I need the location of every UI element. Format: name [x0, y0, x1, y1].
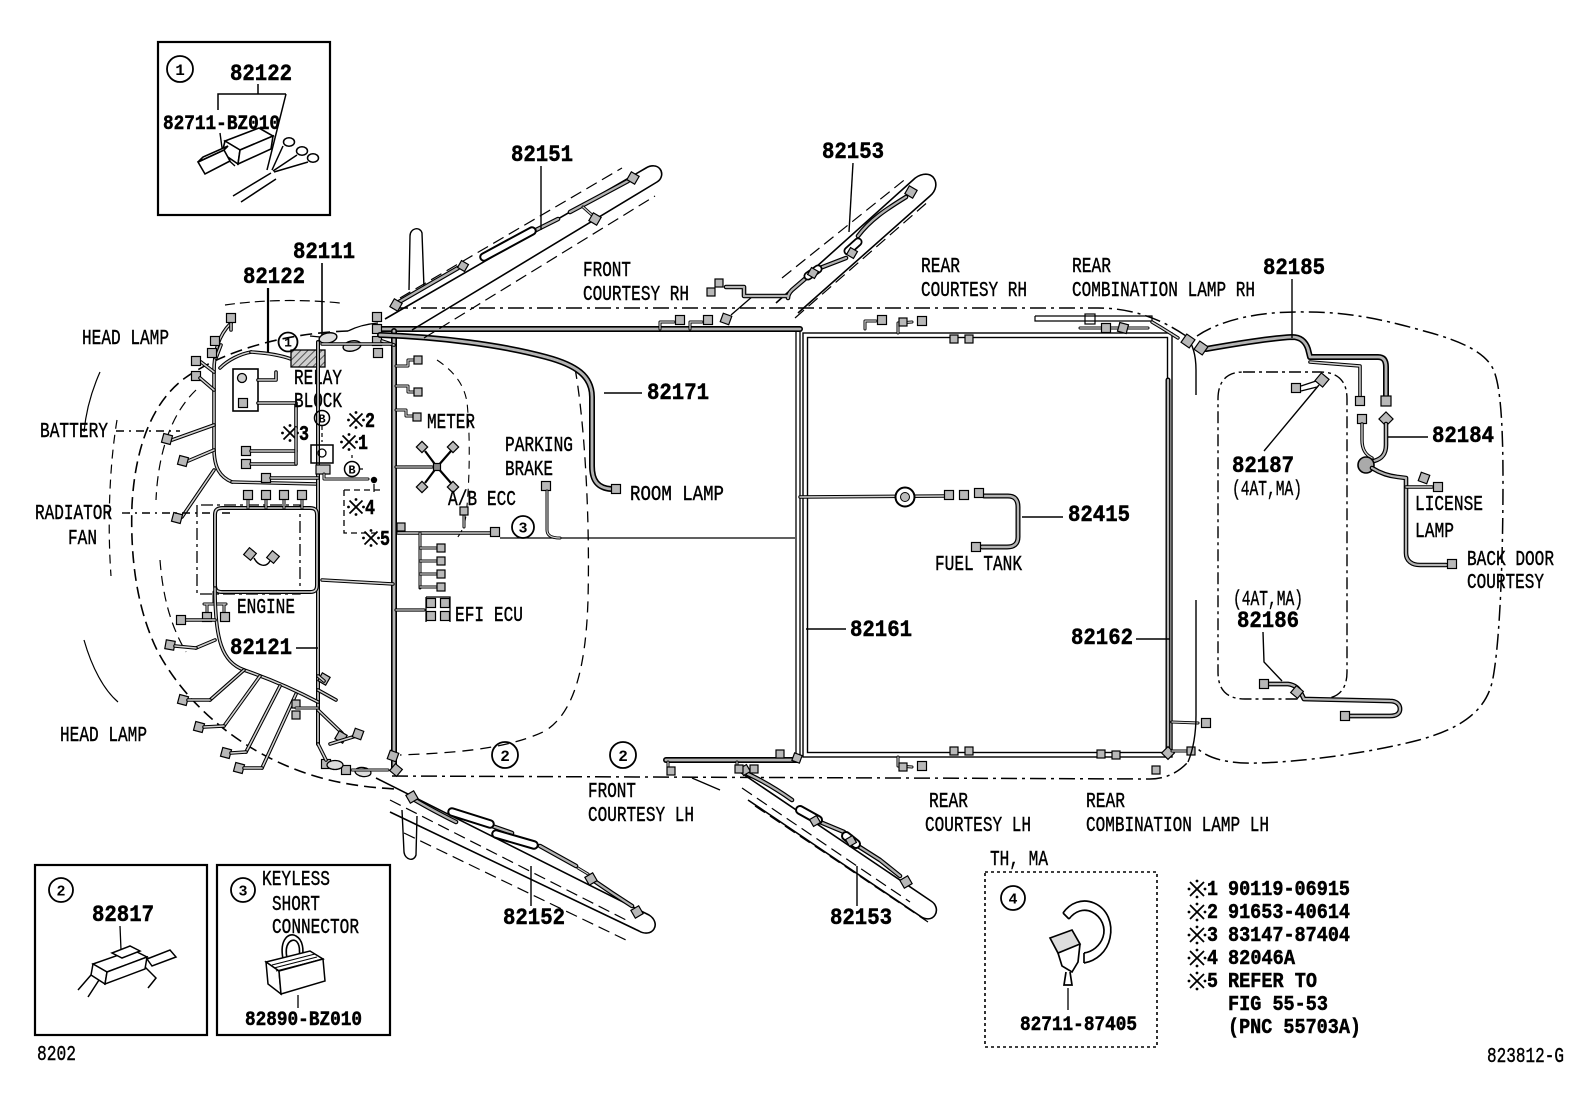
svg-text:B: B	[318, 412, 325, 426]
front courtesy LH connectors	[667, 762, 670, 768]
dashed box *5	[344, 490, 383, 533]
svg-text:8202: 8202	[37, 1044, 76, 1067]
svg-text:TH, MA: TH, MA	[990, 849, 1048, 872]
note 1	[1188, 880, 1207, 899]
fusebox column connectors	[242, 447, 251, 456]
fuel filler circle	[896, 488, 915, 507]
svg-text:COURTESY: COURTESY	[1467, 572, 1544, 595]
cabin dashed console curve	[400, 368, 588, 755]
wire trunk to engine loop	[232, 482, 318, 484]
svg-text:COMBINATION LAMP RH: COMBINATION LAMP RH	[1072, 280, 1255, 303]
svg-text:2: 2	[56, 883, 65, 900]
engine bay trunk harness	[214, 323, 232, 482]
svg-text:82890-BZ010: 82890-BZ010	[245, 1009, 362, 1032]
cabin divider line	[500, 537, 795, 539]
svg-text:82185: 82185	[1263, 255, 1325, 281]
connector stack engine bay	[292, 700, 300, 708]
harness 82162 vertical band	[1166, 380, 1171, 750]
svg-text:82122: 82122	[230, 61, 292, 87]
note 5	[1188, 972, 1207, 991]
parking brake wire	[542, 482, 551, 491]
svg-text:82153: 82153	[830, 905, 892, 931]
EFI ECU connector block	[396, 608, 424, 611]
A/B ECC post	[463, 516, 466, 527]
leader 82122 vertical	[267, 288, 269, 352]
part number 82415 + leader	[1022, 516, 1063, 518]
harness 82151	[399, 181, 628, 302]
harness 82185	[1206, 337, 1386, 396]
bumper inner arc	[109, 420, 117, 576]
svg-text:REAR: REAR	[1086, 791, 1125, 814]
rear door RH outline	[776, 174, 936, 313]
svg-text:1: 1	[358, 433, 368, 456]
note 2	[1188, 903, 1207, 922]
svg-text:82162: 82162	[1071, 625, 1133, 651]
svg-text:PARKING: PARKING	[505, 435, 573, 458]
front door LH outline	[376, 778, 655, 933]
svg-text:83147-87404: 83147-87404	[1228, 925, 1350, 948]
svg-text:BRAKE: BRAKE	[505, 459, 553, 482]
engine bay bottom connectors	[318, 690, 336, 700]
harness 82186	[1268, 684, 1400, 716]
legend box 4	[985, 872, 1157, 1047]
harness 82153 bottom	[748, 774, 900, 876]
svg-text:82186: 82186	[1237, 608, 1299, 634]
svg-text:A/B ECC: A/B ECC	[448, 489, 516, 512]
meter hook connector 3	[396, 410, 413, 416]
legend box 3	[217, 865, 390, 1035]
svg-text:823812-G: 823812-G	[1487, 1046, 1564, 1069]
svg-text:82046A: 82046A	[1228, 948, 1295, 971]
main body rear edge curves	[1186, 336, 1196, 395]
82122 bracket leader	[218, 84, 286, 170]
svg-text:KEYLESS: KEYLESS	[262, 869, 330, 892]
connector drawing 82890	[282, 935, 303, 959]
meter cross component	[396, 465, 432, 468]
svg-text:4: 4	[1008, 891, 1017, 908]
lower engine bay harness	[215, 588, 318, 702]
note 3	[1188, 926, 1207, 945]
harness 82171 (roof to room lamp)	[380, 335, 611, 489]
floor rect bottom connectors	[950, 747, 958, 755]
battery branch wires	[172, 425, 214, 440]
svg-text:ROOM LAMP: ROOM LAMP	[630, 484, 724, 507]
svg-text:REAR: REAR	[921, 256, 960, 279]
rear floor harness rectangle 82161/82162	[803, 333, 1172, 757]
svg-text:4: 4	[365, 498, 375, 521]
svg-text:COURTESY RH: COURTESY RH	[583, 284, 689, 307]
A/B ECC band	[398, 531, 490, 535]
svg-text:HEAD LAMP: HEAD LAMP	[82, 328, 169, 351]
main roof rail harness (82141 run along top)	[378, 326, 800, 332]
82186 leader	[1263, 632, 1282, 681]
svg-text:82121: 82121	[230, 635, 292, 661]
engine harness loop	[215, 508, 317, 592]
82187 connector + leader	[1292, 384, 1301, 393]
engine harness 82121 central vertical	[316, 342, 320, 744]
svg-text:82122: 82122	[243, 264, 305, 290]
82185 connectors at lamp	[1181, 334, 1195, 348]
svg-text:ENGINE: ENGINE	[237, 597, 295, 620]
front door RH outline	[385, 166, 662, 330]
noise filter components	[315, 411, 330, 426]
back door window opening	[1218, 372, 1347, 699]
svg-text:FRONT: FRONT	[583, 260, 631, 283]
roof line top (dash-dot)	[392, 308, 1186, 336]
circled 4 (legend)	[1001, 886, 1025, 910]
T-fork connector	[204, 592, 226, 612]
svg-text:COURTESY RH: COURTESY RH	[921, 280, 1027, 303]
svg-text:COURTESY LH: COURTESY LH	[925, 815, 1031, 838]
circled 3	[512, 516, 534, 538]
floor rect top connectors	[950, 335, 958, 343]
loop stem connectors	[247, 500, 250, 508]
svg-text:METER: METER	[427, 412, 475, 435]
svg-text:82711-87405: 82711-87405	[1020, 1014, 1137, 1037]
windshield cowl lines	[348, 323, 378, 331]
connector comb	[419, 533, 422, 588]
engine dash-dot box	[197, 505, 300, 594]
harness 82152	[415, 800, 632, 906]
svg-text:2: 2	[500, 748, 510, 766]
quarter vent front door RH	[409, 229, 424, 290]
svg-text:5: 5	[1207, 971, 1218, 994]
car body front outline	[132, 331, 396, 789]
svg-text:2: 2	[365, 411, 375, 434]
room lamp connector	[612, 485, 621, 494]
front floor right edge double line	[796, 331, 800, 758]
fuel tank line	[800, 496, 944, 497]
svg-text:82161: 82161	[850, 617, 912, 643]
part number 82171 + leader	[604, 392, 642, 394]
leader 82111 vertical	[321, 263, 323, 336]
svg-text:4: 4	[1207, 948, 1218, 971]
svg-text:COMBINATION LAMP LH: COMBINATION LAMP LH	[1086, 815, 1269, 838]
svg-text:COURTESY LH: COURTESY LH	[588, 805, 694, 828]
svg-text:82415: 82415	[1068, 502, 1130, 528]
svg-text:HEAD LAMP: HEAD LAMP	[60, 725, 147, 748]
radiator fan branch	[182, 470, 214, 517]
svg-text:3: 3	[1207, 925, 1218, 948]
82151 hook	[583, 207, 592, 215]
bottom floor rail harness	[666, 757, 798, 763]
quarter vent front door LH	[402, 810, 417, 859]
part number 82161 + leader	[806, 628, 846, 630]
head lamp RH branch wires	[201, 362, 214, 372]
svg-text:FUEL TANK: FUEL TANK	[935, 554, 1022, 577]
circled 1 (diagram)	[279, 333, 298, 352]
svg-text:RADIATOR: RADIATOR	[35, 503, 112, 526]
connector drawing 82817	[78, 946, 176, 997]
legend box 1	[158, 42, 330, 215]
svg-text:(4AT,MA): (4AT,MA)	[1232, 479, 1302, 502]
svg-text:B: B	[348, 463, 355, 477]
harness 82141 vertical run	[391, 331, 397, 768]
svg-text:82153: 82153	[822, 139, 884, 165]
circled 2 markers	[492, 742, 518, 768]
svg-text:82152: 82152	[503, 905, 565, 931]
svg-text:1: 1	[175, 62, 185, 80]
svg-text:LICENSE: LICENSE	[1415, 494, 1483, 517]
svg-text:5: 5	[380, 529, 390, 552]
svg-text:90119-06915: 90119-06915	[1228, 879, 1350, 902]
engine inner connectors	[244, 548, 257, 561]
svg-text:1: 1	[284, 336, 292, 351]
front courtesy RH connectors	[660, 322, 674, 329]
rear combination lamp RH connectors	[1080, 327, 1148, 330]
circled 1 (legend)	[167, 56, 193, 82]
svg-text:1: 1	[1207, 879, 1218, 902]
svg-text:SHORT: SHORT	[272, 894, 320, 917]
svg-text:FIG 55-53: FIG 55-53	[1228, 994, 1328, 1017]
svg-text:REFER TO: REFER TO	[1228, 971, 1317, 994]
harness 82184 vertical runs	[1372, 424, 1386, 462]
rear door LH outline	[737, 770, 936, 919]
clamp drawing 82711-87405	[1050, 901, 1111, 985]
relay block connector box	[233, 369, 258, 411]
grommet	[1358, 457, 1374, 473]
svg-text:82171: 82171	[647, 380, 709, 406]
svg-text:3: 3	[238, 883, 247, 900]
svg-text:BATTERY: BATTERY	[40, 421, 108, 444]
svg-text:82111: 82111	[293, 239, 355, 265]
svg-text:82151: 82151	[511, 142, 573, 168]
harness 82184 lower	[1372, 468, 1446, 565]
svg-text:BACK DOOR: BACK DOOR	[1467, 549, 1554, 572]
back door outline (dash-dot)	[1197, 312, 1503, 763]
svg-text:3: 3	[518, 520, 527, 537]
svg-text:CONNECTOR: CONNECTOR	[272, 917, 359, 940]
svg-text:2: 2	[1207, 902, 1218, 925]
svg-text:REAR: REAR	[929, 791, 968, 814]
svg-text:2: 2	[618, 748, 628, 766]
svg-text:FRONT: FRONT	[588, 781, 636, 804]
svg-text:(PNC 55703A): (PNC 55703A)	[1228, 1017, 1361, 1040]
harness 82415	[982, 496, 1018, 547]
svg-text:LAMP: LAMP	[1415, 521, 1454, 544]
connector drawing (legend box 1)	[198, 128, 273, 174]
bottom rail end connectors	[387, 750, 399, 762]
svg-text:FAN: FAN	[68, 528, 97, 551]
svg-text:91653-40614: 91653-40614	[1228, 902, 1350, 925]
svg-text:82184: 82184	[1432, 423, 1494, 449]
harness 82153 top	[726, 197, 906, 298]
svg-text:EFI ECU: EFI ECU	[455, 605, 523, 628]
svg-text:3: 3	[299, 424, 309, 447]
82162 branch connectors	[1172, 722, 1198, 723]
ring terminals (legend box 1)	[233, 138, 319, 202]
body line bottom (dash-dot)	[392, 762, 1188, 779]
key connectors (ovals)	[318, 331, 338, 345]
relay block (hatched)	[291, 350, 325, 367]
note 4	[1188, 949, 1207, 968]
legend box 2	[35, 865, 207, 1035]
left end connector stack	[373, 313, 382, 322]
circled 2 (legend)	[49, 878, 73, 902]
rear courtesy LH connectors	[898, 757, 912, 767]
rear courtesy RH connectors	[865, 321, 876, 329]
meter connector hooks	[396, 360, 414, 366]
svg-text:82187: 82187	[1232, 453, 1294, 479]
svg-text:82817: 82817	[92, 902, 154, 928]
svg-text:REAR: REAR	[1072, 256, 1111, 279]
circled 3 (legend)	[231, 878, 255, 902]
82711-BZ010 leader	[220, 133, 235, 166]
